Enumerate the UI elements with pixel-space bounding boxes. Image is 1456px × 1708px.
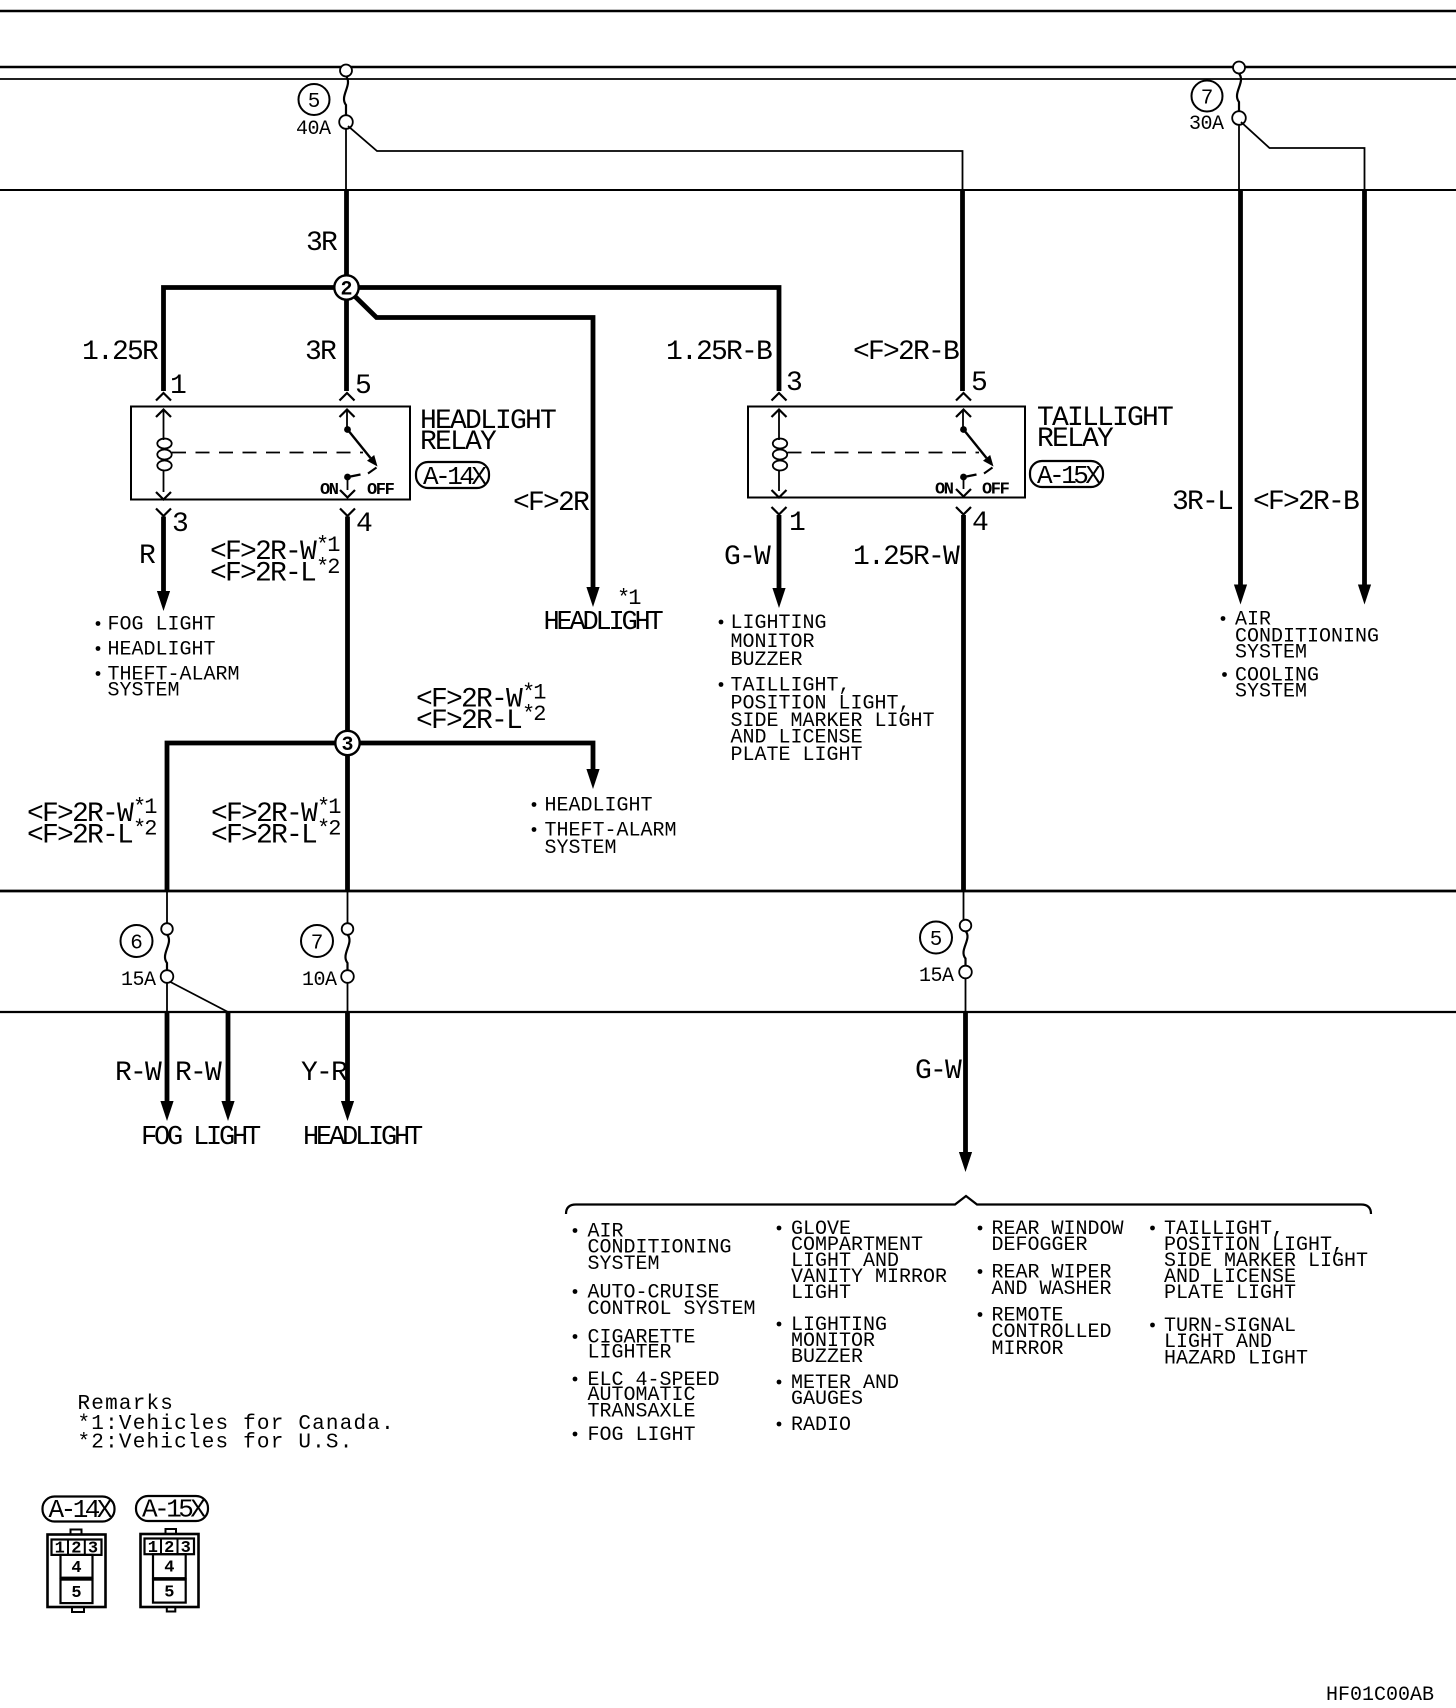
svg-text:4: 4 xyxy=(972,508,988,539)
wire: power bus line 2 xyxy=(0,66,1456,69)
svg-text:G-W: G-W xyxy=(724,542,771,573)
svg-text:BUZZER: BUZZER xyxy=(731,649,803,672)
svg-text:BUZZER: BUZZER xyxy=(791,1346,863,1369)
svg-text:RELAY: RELAY xyxy=(420,427,497,458)
svg-text:1.25R: 1.25R xyxy=(82,337,159,368)
junction node 3 xyxy=(335,731,359,757)
wire: 3R main feed from rail to junction 2 xyxy=(344,190,349,277)
svg-text:*2: *2 xyxy=(316,555,339,580)
fuse F7 10A xyxy=(301,891,354,992)
svg-text:5: 5 xyxy=(971,368,987,399)
svg-text:6: 6 xyxy=(130,933,143,956)
list column 2 xyxy=(777,1218,947,1437)
wire: junction 2 right branch to taillight relay pin 3 xyxy=(357,288,779,392)
svg-text:ON: ON xyxy=(320,481,339,500)
wire+arrow: G-W accessory feed xyxy=(963,1012,968,1153)
svg-text:TRANSAXLE: TRANSAXLE xyxy=(588,1401,696,1424)
list: air conditioning system / cooling system xyxy=(1221,609,1379,704)
svg-text:SYSTEM: SYSTEM xyxy=(1235,642,1307,665)
junction 3 left branch xyxy=(167,743,337,891)
wire: fuse F5 branch diagonal to taillight feed xyxy=(348,126,963,190)
svg-text:Y-R: Y-R xyxy=(301,1058,348,1089)
svg-text:SYSTEM: SYSTEM xyxy=(588,1253,660,1276)
wire: TL pin 1 G-W output xyxy=(777,515,782,589)
fuse F6 15A xyxy=(121,891,174,992)
svg-text:7: 7 xyxy=(311,933,324,956)
TL pin 5 connector chevrons xyxy=(956,393,971,417)
wire: power bus line 3 xyxy=(0,78,1456,80)
wire: middle horizontal rail lower xyxy=(0,1011,1456,1013)
svg-text:10A: 10A xyxy=(302,969,337,992)
wire: 3R-L feed down right side xyxy=(1238,190,1243,585)
svg-text:15A: 15A xyxy=(919,965,954,988)
svg-text:SYSTEM: SYSTEM xyxy=(108,680,180,703)
TL relay contact xyxy=(960,426,993,480)
fuse F7 30A xyxy=(1189,62,1246,137)
fuse F5 40A xyxy=(296,65,353,142)
wire: junction 2 left branch to headlight relay pin 1 xyxy=(164,288,337,392)
remarks block xyxy=(78,1393,395,1455)
svg-text:GAUGES: GAUGES xyxy=(791,1388,863,1411)
list: fog light / headlight / theft-alarm system xyxy=(96,614,240,703)
junction node 2 xyxy=(334,275,358,301)
svg-text:<F>2R-L: <F>2R-L xyxy=(210,559,316,590)
wire: pin 4 down to junction 3 xyxy=(345,517,350,733)
connector callout A-14X xyxy=(416,462,489,492)
wire pin4 stub xyxy=(347,480,349,490)
svg-text:4: 4 xyxy=(164,1559,174,1578)
list column 1 xyxy=(573,1221,756,1448)
svg-text:FOG LIGHT: FOG LIGHT xyxy=(108,614,216,637)
svg-text:PLATE LIGHT: PLATE LIGHT xyxy=(1164,1282,1296,1305)
wire: top power bus line 1 xyxy=(0,10,1456,13)
connector callout A-15X xyxy=(1030,461,1103,491)
svg-text:SYSTEM: SYSTEM xyxy=(1235,681,1307,704)
wire: fuse F6 output diagonal xyxy=(170,982,229,1013)
wire+arrow: R-W fog light feed 2 xyxy=(226,1012,231,1102)
wire: fuse F7 output xyxy=(347,983,349,1013)
svg-text:<F>2R-L: <F>2R-L xyxy=(211,821,317,852)
junction 3 right branch to headlight arrow xyxy=(358,743,594,770)
relay box: taillight relay xyxy=(748,407,1025,498)
svg-text:LIGHT: LIGHT xyxy=(791,1282,851,1305)
svg-text:30A: 30A xyxy=(1189,113,1224,136)
svg-text:*2: *2 xyxy=(522,702,545,727)
svg-text:1: 1 xyxy=(789,508,805,539)
svg-text:<F>2R: <F>2R xyxy=(513,488,590,519)
svg-text:A-14X: A-14X xyxy=(423,462,487,492)
svg-text:5: 5 xyxy=(930,929,943,952)
TL pin 1 chevron inside box xyxy=(772,490,787,498)
brace over accessory list xyxy=(566,1196,1371,1214)
svg-text:*2: *2 xyxy=(317,817,340,842)
svg-text:ON: ON xyxy=(935,481,954,500)
list: lighting monitor buzzer / taillight group xyxy=(719,612,935,767)
wire: middle horizontal rail upper xyxy=(0,890,1456,893)
svg-text:1.25R-B: 1.25R-B xyxy=(666,337,772,368)
svg-text:R-W: R-W xyxy=(175,1058,222,1089)
wire: horizontal rail below fuses xyxy=(0,189,1456,191)
svg-text:3: 3 xyxy=(341,734,353,757)
wire: fuse F7 branch diagonal to second feed xyxy=(1241,122,1365,190)
svg-text:HEADLIGHT: HEADLIGHT xyxy=(544,608,664,638)
wire: fuse F6 output vertical xyxy=(166,983,168,1013)
list: headlight / theft-alarm system xyxy=(532,795,677,861)
svg-text:HAZARD LIGHT: HAZARD LIGHT xyxy=(1164,1348,1308,1371)
TL dashed link xyxy=(788,452,980,454)
svg-text:DEFOGGER: DEFOGGER xyxy=(992,1234,1088,1257)
wire+arrow: Y-R headlight feed xyxy=(345,1012,350,1102)
wire: 3R from junction 2 down to relay pin 5 xyxy=(344,298,349,391)
TL pin 1 chevron below box xyxy=(772,507,787,515)
arrow: 3R-L xyxy=(1234,585,1247,605)
TL wire pin4 stub xyxy=(963,480,965,489)
svg-text:FOG LIGHT: FOG LIGHT xyxy=(141,1123,261,1153)
svg-text:CONTROL SYSTEM: CONTROL SYSTEM xyxy=(588,1298,756,1321)
pin 3 chevron below box xyxy=(156,509,171,517)
wire: (F)2R-B feed down right side xyxy=(1362,190,1367,585)
svg-text:A-15X: A-15X xyxy=(1037,461,1101,491)
arrow: junction3 right headlight xyxy=(586,769,599,789)
svg-text:15A: 15A xyxy=(121,969,156,992)
svg-text:FOG LIGHT: FOG LIGHT xyxy=(588,1424,696,1447)
svg-text:5: 5 xyxy=(164,1584,174,1603)
arrow: G-W output xyxy=(772,588,785,608)
TL wire pin5 stub to contact xyxy=(962,410,964,427)
connector label A-14X xyxy=(43,1495,115,1525)
dashed link coil to contact xyxy=(172,452,363,454)
list column 3 xyxy=(978,1218,1124,1361)
wire: junction 2 diagonal branch to headlight feed xyxy=(351,293,593,589)
wire: fuse F5b output xyxy=(965,979,967,1013)
TL relay coil xyxy=(773,411,787,491)
svg-text:3: 3 xyxy=(172,509,188,540)
pin 4 chevron below box xyxy=(340,509,355,517)
svg-text:40A: 40A xyxy=(296,118,331,141)
wire: fuse F5 output down to rail xyxy=(345,129,347,190)
svg-text:AND WASHER: AND WASHER xyxy=(992,1278,1112,1301)
TL pin 3 connector chevrons xyxy=(772,393,787,417)
wire+arrow: R-W fog light feed 1 xyxy=(165,1012,170,1102)
svg-text:*2: *2 xyxy=(133,817,156,842)
svg-text:SYSTEM: SYSTEM xyxy=(545,837,617,860)
pin 3 chevron inside box xyxy=(156,492,171,500)
svg-text:5: 5 xyxy=(355,371,371,402)
TL pin 4 chevron inside box xyxy=(956,489,971,497)
svg-text:4: 4 xyxy=(71,1559,81,1578)
wire: (F)2R-B feed down to taillight relay pin 5 xyxy=(960,190,965,391)
svg-text:1: 1 xyxy=(170,371,186,402)
arrow: *1 headlight feed xyxy=(586,587,599,607)
wire: fuse F7 output down to rail xyxy=(1238,125,1240,190)
wire: junction 3 down continuation xyxy=(345,754,350,891)
svg-text:R-W: R-W xyxy=(115,1058,162,1089)
wire: TL pin 4 1.25R-W down to rail xyxy=(961,515,966,891)
svg-text:OFF: OFF xyxy=(982,481,1010,500)
svg-text:MIRROR: MIRROR xyxy=(992,1338,1064,1361)
svg-text:R: R xyxy=(139,541,156,572)
svg-text:A-15X: A-15X xyxy=(142,1495,206,1525)
svg-text:5: 5 xyxy=(71,1584,81,1603)
TL pin 4 chevron below box xyxy=(956,507,971,515)
svg-text:4: 4 xyxy=(356,509,372,540)
svg-text:3: 3 xyxy=(786,368,802,399)
relay coil xyxy=(157,411,171,492)
pin 4 chevron inside box xyxy=(340,490,355,498)
wire pin5 stub to contact xyxy=(346,410,348,427)
pin 1 connector chevrons xyxy=(156,393,171,417)
svg-text:PLATE LIGHT: PLATE LIGHT xyxy=(731,744,863,767)
svg-text:<F>2R-L: <F>2R-L xyxy=(416,706,522,737)
pin 5 connector chevrons xyxy=(340,393,355,417)
connector label A-15X xyxy=(136,1495,208,1525)
arrow: R output xyxy=(157,591,170,611)
svg-text:A-14X: A-14X xyxy=(49,1495,113,1525)
wire: pin 3 R output xyxy=(161,517,166,593)
svg-text:1.25R-W: 1.25R-W xyxy=(853,542,960,573)
svg-text:<F>2R-B: <F>2R-B xyxy=(853,337,959,368)
svg-text:<F>2R-B: <F>2R-B xyxy=(1253,487,1359,518)
connector drawing A-15X xyxy=(141,1529,199,1612)
arrow: (F)2R-B right xyxy=(1358,585,1371,605)
svg-text:<F>2R-L: <F>2R-L xyxy=(27,821,133,852)
svg-text:RADIO: RADIO xyxy=(791,1414,851,1437)
svg-text:HEADLIGHT: HEADLIGHT xyxy=(303,1123,423,1153)
svg-text:HEADLIGHT: HEADLIGHT xyxy=(108,639,216,662)
svg-text:RELAY: RELAY xyxy=(1037,424,1114,455)
connector drawing A-14X xyxy=(48,1530,106,1613)
svg-text:HF01C00AB: HF01C00AB xyxy=(1326,1684,1434,1707)
svg-text:G-W: G-W xyxy=(915,1056,962,1087)
svg-text:LIGHTER: LIGHTER xyxy=(588,1342,672,1365)
svg-text:3R: 3R xyxy=(306,228,338,259)
svg-text:*2:Vehicles for U.S.: *2:Vehicles for U.S. xyxy=(78,1432,354,1455)
svg-text:HEADLIGHT: HEADLIGHT xyxy=(545,795,653,818)
svg-text:OFF: OFF xyxy=(367,481,395,500)
fuse F5b 15A xyxy=(919,891,972,988)
relay box: headlight relay xyxy=(131,407,410,500)
list column 4 xyxy=(1150,1218,1368,1371)
svg-text:2: 2 xyxy=(340,279,352,302)
svg-text:7: 7 xyxy=(1201,88,1214,111)
relay contact: pivot, blade, arrowhead, ON dot xyxy=(344,426,377,480)
svg-text:3R: 3R xyxy=(305,337,337,368)
svg-text:3R-L: 3R-L xyxy=(1172,487,1233,518)
svg-text:5: 5 xyxy=(308,91,321,114)
